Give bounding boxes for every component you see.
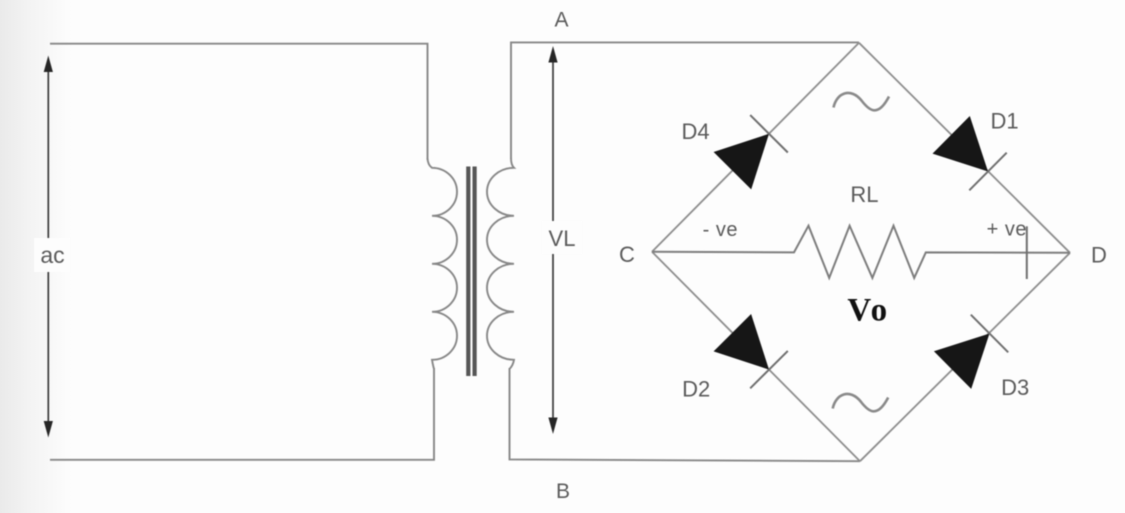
svg-text:D3: D3 [1001,375,1029,400]
svg-text:ac: ac [40,242,64,268]
svg-text:C: C [619,242,635,267]
bridge edge B to D (bottom-right) [860,253,1070,461]
diode D3 cathode bar [971,315,1008,353]
svg-text:B: B [556,480,570,503]
diode D1 cathode bar [969,153,1006,191]
svg-text:RL: RL [850,182,878,207]
bridge edge C to B (bottom-left) [652,252,860,461]
diode D2 cathode bar [750,351,788,388]
diode D3 triangle [934,334,990,389]
svg-text:+ ve: + ve [987,218,1027,240]
VL arrow (double-headed) [542,46,582,434]
svg-text:D: D [1091,242,1107,267]
bridge edge C to A (top-left) [652,43,859,252]
ac tilde top [834,93,890,110]
svg-text:VL: VL [549,226,576,251]
diode D4 cathode bar [750,115,788,152]
wire secondary top to node A / bridge top [511,42,859,159]
transformer T1 primary winding [428,158,457,369]
bridge edge A to D (top-right) [859,43,1070,253]
wire bottom-left (primary bottom) [50,368,434,460]
transformer T1 core [468,167,474,377]
+ve terminal tick [1026,226,1028,279]
diode D2 triangle [714,314,769,370]
transformer T1 secondary winding [487,158,514,369]
svg-text:A: A [554,9,568,32]
ac source arrow (double-headed) [34,56,70,438]
wire secondary bottom to bridge bottom [510,368,861,461]
svg-text:D1: D1 [991,108,1019,133]
ac tilde bottom [833,394,889,411]
diode D1 triangle [933,116,989,172]
svg-text:Vo: Vo [847,293,889,329]
wire top-left (primary top) [50,44,428,160]
svg-text:D2: D2 [682,377,710,402]
svg-text:D4: D4 [682,119,710,144]
svg-text:- ve: - ve [703,219,738,241]
load wire with resistor RL zigzag [652,226,1070,278]
diode D4 triangle [714,134,769,190]
